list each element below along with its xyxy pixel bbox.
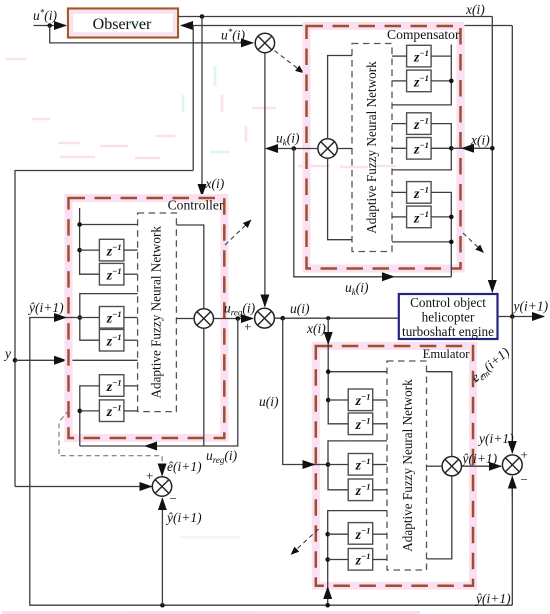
AFNN box controller	[138, 213, 177, 412]
wire ureg output	[214, 318, 254, 320]
wire yhat up into S7	[161, 498, 163, 605]
emulator pink halo	[316, 346, 473, 586]
svg-text:u(i): u(i)	[259, 394, 279, 409]
wire AFNN mid link	[337, 148, 352, 150]
node bus dot emulator G3	[325, 603, 330, 608]
observer U0	[68, 9, 178, 38]
svg-text:y(i+1): y(i+1)	[477, 431, 514, 446]
summer S4 controller	[194, 309, 213, 328]
wire AFNN mid link	[427, 465, 443, 467]
node G1 dot direct	[326, 369, 331, 374]
delay z3 box	[407, 113, 432, 135]
wire z15 output	[373, 464, 387, 466]
wire left bus into S7	[15, 486, 152, 488]
wire z5 output to AFNN	[392, 191, 407, 193]
wire z4 output to AFNN	[392, 147, 407, 149]
wire dashed adapt controller out	[225, 220, 251, 245]
delay z8 box	[99, 263, 124, 285]
controller pink halo	[69, 198, 225, 438]
svg-text:u(i): u(i)	[290, 301, 310, 316]
wire yhat entry	[30, 317, 66, 319]
svg-text:ŷ(i+1): ŷ(i+1)	[27, 300, 64, 315]
wire x(i) down into controller	[201, 17, 203, 197]
wire G1 direct line	[328, 371, 387, 373]
wire z1 output to AFNN	[392, 55, 407, 57]
wire bottom bus	[30, 318, 513, 606]
wire uk feedback down and right	[294, 149, 381, 277]
svg-text:ŷ(i+1): ŷ(i+1)	[165, 510, 202, 525]
svg-text:Adaptive Fuzzy Neural Network: Adaptive Fuzzy Neural Network	[400, 379, 415, 552]
node G3 dot z6	[449, 215, 454, 220]
node G1 dot z13	[326, 398, 331, 403]
delay z4 box	[407, 138, 432, 160]
wire G2 feed vertical	[328, 441, 348, 490]
wire horizontal to left bus	[15, 171, 193, 487]
wire z18 input	[328, 559, 349, 561]
wire x(i) drop into emulator	[327, 318, 329, 344]
wire z13 output	[373, 399, 387, 401]
wire G3 direct line	[348, 510, 387, 512]
wire G3 feed vertical from ureg	[80, 386, 100, 446]
svg-text:Controller: Controller	[168, 198, 224, 213]
wire G1 feed vertical	[80, 208, 100, 274]
summer S2	[255, 308, 275, 328]
wire G2 feed vertical	[392, 124, 451, 170]
node uk branch dot	[292, 146, 297, 151]
wire G1 direct line	[80, 224, 138, 226]
wire z9 input	[80, 317, 100, 319]
delay z15 box	[348, 454, 373, 476]
wire AFNN top link	[176, 225, 203, 309]
svg-text:Compensator: Compensator	[387, 27, 460, 42]
delay z11 box	[99, 375, 124, 397]
wire AFNN bottom link	[328, 158, 352, 240]
svg-text:x(i): x(i)	[205, 176, 225, 191]
wire y(i+1) feedback into observer	[181, 25, 512, 27]
wire u*(i) into Observer	[34, 25, 67, 27]
summer S5 emulator	[442, 457, 461, 476]
wire y(i+1) vertical right	[511, 26, 513, 317]
svg-text:x(i): x(i)	[465, 2, 485, 17]
delay z6 box	[407, 206, 432, 228]
svg-text:+: +	[521, 447, 528, 462]
svg-text:−: −	[170, 491, 177, 506]
summer S7 error	[152, 477, 171, 496]
AFNN box emulator	[387, 361, 427, 570]
svg-text:Adaptive Fuzzy Neural Network: Adaptive Fuzzy Neural Network	[149, 226, 164, 399]
svg-text:Adaptive Fuzzy Neural Network: Adaptive Fuzzy Neural Network	[364, 61, 379, 234]
wire u* bypass down	[50, 26, 253, 43]
wire z13 input	[328, 399, 348, 401]
summer S1	[255, 33, 274, 52]
wire z8 output	[124, 273, 138, 275]
delay z2 box	[407, 70, 432, 92]
svg-text:uk(i): uk(i)	[276, 131, 300, 148]
wire dashed eem	[473, 374, 485, 386]
wire z16 output	[373, 489, 387, 491]
wire dashed ehat path	[59, 410, 162, 467]
wire z2 output to AFNN	[392, 80, 407, 82]
node ureg branch dot	[236, 316, 241, 321]
svg-text:Control object: Control object	[410, 295, 486, 310]
wire dashed adapt compensator out	[463, 233, 484, 253]
node x(i) branch dot	[490, 146, 495, 151]
controller dashed border	[69, 198, 225, 438]
node G1 dot z1	[77, 248, 82, 253]
wire x(i) vertical into plant	[491, 17, 493, 293]
wire branch down to left bus	[192, 26, 194, 171]
wire G3 feed vertical from bus	[327, 587, 329, 605]
wire G2 feed vertical	[80, 294, 138, 341]
wire y(i+1) output	[498, 316, 545, 318]
wire G3 direct line	[392, 241, 451, 243]
node G2 dot input	[78, 315, 83, 320]
svg-text:+: +	[244, 319, 251, 334]
wire z4 input	[431, 147, 451, 149]
wire z9 output	[124, 317, 138, 319]
node top line branch dot	[200, 14, 205, 19]
delay z18 box	[348, 549, 373, 571]
wire z1 input	[431, 55, 451, 57]
wire z12 input	[80, 410, 100, 412]
svg-text:uk(i): uk(i)	[345, 280, 369, 297]
wire ehat arrow	[161, 465, 163, 476]
wire AFNN top link	[328, 56, 352, 139]
summer S3 compensator	[318, 139, 337, 158]
svg-text:y: y	[3, 346, 11, 361]
AFNN box compensator	[352, 44, 392, 252]
summer S6 final	[502, 455, 522, 475]
svg-text:Observer: Observer	[93, 16, 152, 33]
node y output dot	[510, 314, 515, 319]
node u* branch dot	[47, 23, 52, 28]
wire S6 bottom to bus	[511, 486, 513, 605]
wire yhat to S6	[462, 465, 502, 467]
wire z2 input	[431, 80, 451, 82]
wire u(i) branch down	[283, 318, 314, 464]
svg-text:Emulator: Emulator	[423, 347, 471, 361]
svg-text:u*(i): u*(i)	[33, 8, 57, 24]
wire observer output x(i) top line	[178, 16, 492, 18]
wire y(i+1) into S6	[511, 317, 513, 454]
node G3 dot z17	[325, 532, 330, 537]
wire z18 output	[373, 559, 387, 561]
wire z14 output	[373, 423, 387, 425]
svg-text:ŷ(i+1): ŷ(i+1)	[474, 591, 511, 606]
node G2 dot input	[326, 462, 331, 467]
wire AFNN mid link	[176, 318, 194, 320]
svg-text:ê(i+1): ê(i+1)	[167, 459, 202, 474]
wire z6 input	[431, 216, 451, 218]
delay z7 box	[99, 239, 124, 261]
wire u(i) to plant	[274, 317, 398, 319]
wire z3 output to AFNN	[392, 123, 407, 125]
node G3 dot direct	[449, 240, 454, 245]
wire z15 input	[328, 464, 348, 466]
svg-text:u*(i): u*(i)	[221, 27, 245, 43]
svg-text:ŷ(i+1): ŷ(i+1)	[461, 451, 498, 466]
wire dashed adapt S1 to compensator	[275, 51, 304, 74]
node G1 dot	[449, 79, 454, 84]
svg-text:−: −	[521, 472, 528, 487]
node G2 dot	[449, 146, 454, 151]
delay z17 box	[348, 523, 373, 545]
node u branch dot 2	[326, 316, 330, 320]
delay z12 box	[99, 400, 124, 422]
wire S4 bottom down	[203, 328, 205, 446]
wire x(i) entry from right	[475, 147, 493, 149]
wire uk output left	[266, 148, 318, 150]
node bus dot yhat left	[160, 603, 165, 608]
wire ureg feedback	[162, 319, 238, 447]
delay z10 box	[99, 329, 124, 351]
node G3 dot z18	[325, 557, 330, 562]
svg-text:x(i): x(i)	[470, 133, 490, 148]
wire AFNN top link	[427, 372, 452, 457]
wire dashed adapt emulator out	[291, 529, 319, 555]
svg-text:x(i): x(i)	[306, 321, 326, 336]
node y branch dot	[13, 358, 18, 363]
wire z11 output	[124, 385, 138, 387]
wire z7 input	[80, 249, 100, 251]
wire G1 feed vertical	[328, 344, 348, 424]
wire AFNN bottom link	[427, 476, 452, 559]
delay z5 box	[407, 182, 432, 204]
wire G2 direct line	[348, 440, 387, 442]
wire y direct line to AFNN	[66, 359, 138, 361]
compensator dashed border	[307, 26, 461, 269]
wire z10 output	[124, 339, 138, 341]
wire S1 down to S2	[264, 53, 266, 307]
node G1 dot direct	[77, 222, 82, 227]
delay z9 box	[99, 307, 124, 329]
wire z17 output	[373, 533, 387, 535]
svg-text:y(i+1): y(i+1)	[512, 299, 549, 314]
wire z6 output to AFNN	[392, 216, 407, 218]
delay z16 box	[348, 479, 373, 501]
wire y into controller G3	[15, 359, 66, 361]
wire G3 feed vertical from uk line	[431, 192, 451, 276]
wire G1 feed vertical	[392, 45, 451, 105]
wire z17 input	[328, 533, 349, 535]
node u branch dot 1	[280, 316, 285, 321]
delay z1 box	[407, 45, 432, 67]
node G3 dot z12	[78, 409, 83, 414]
wire z7 output	[124, 249, 138, 251]
svg-text:helicopter: helicopter	[422, 310, 475, 325]
delay z14 box	[348, 413, 373, 435]
wire z12 output	[124, 410, 138, 412]
control object block	[399, 294, 498, 339]
emulator dashed border	[316, 346, 473, 586]
svg-text:turboshaft engine: turboshaft engine	[402, 324, 494, 339]
compensator pink halo	[307, 26, 461, 269]
svg-text:+: +	[146, 468, 153, 483]
delay z13 box	[348, 389, 373, 411]
